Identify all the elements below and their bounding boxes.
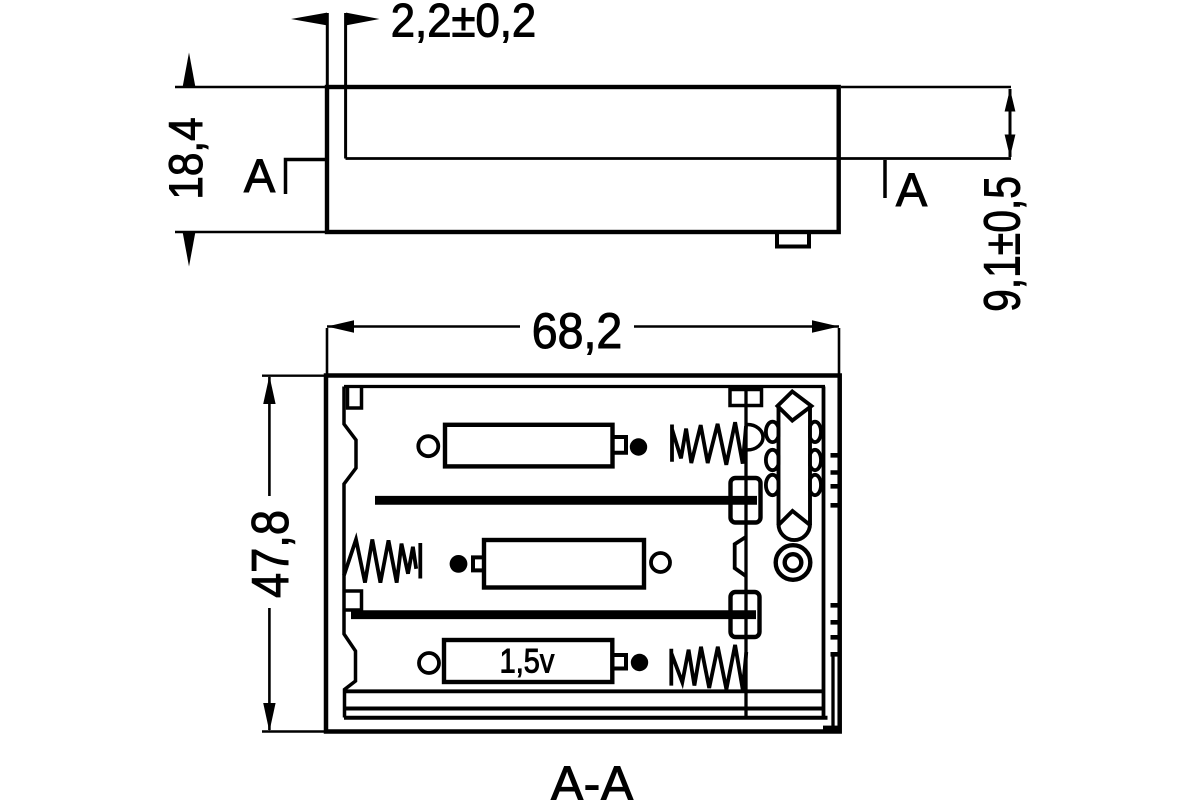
dimension 68,2 left arrow bbox=[327, 320, 354, 332]
floor line 2 bbox=[346, 707, 822, 711]
svg-text:1,5v: 1,5v bbox=[500, 641, 555, 680]
battery B1 outline bbox=[445, 425, 613, 467]
row 2 right contact blade bbox=[735, 537, 746, 576]
spring S2 (row 2) bbox=[344, 540, 420, 583]
svg-text:2,2±0,2: 2,2±0,2 bbox=[391, 0, 536, 47]
svg-text:47,8: 47,8 bbox=[242, 510, 300, 598]
dimension 9,1 line bbox=[1009, 89, 1012, 157]
inner right wall line bbox=[822, 387, 826, 718]
battery B3 positive nub bbox=[613, 655, 627, 669]
svg-text:18,4: 18,4 bbox=[161, 117, 213, 199]
top edge extension line (right) bbox=[841, 86, 1011, 89]
svg-text:A: A bbox=[244, 149, 276, 202]
svg-text:68,2: 68,2 bbox=[532, 303, 622, 359]
battery B3 positive dot bbox=[631, 654, 648, 671]
svg-text:A-A: A-A bbox=[550, 756, 634, 800]
dimension 68,2 line right segment bbox=[634, 325, 839, 328]
contact strip bottom chevron bbox=[779, 511, 811, 525]
dimension 9,1 top arrow bbox=[1005, 89, 1016, 112]
spring S1 end loop bbox=[748, 425, 763, 450]
contact strip coil loops (left) bbox=[766, 422, 779, 442]
battery B2 outline bbox=[484, 540, 644, 588]
dimension 9,1 bottom arrow bbox=[1005, 135, 1016, 158]
right channel inner line bbox=[831, 655, 834, 727]
spring S3 (row 3) bbox=[671, 645, 746, 690]
contact strip coil loops (right) bbox=[809, 422, 821, 442]
contact strip top diamond bbox=[778, 392, 812, 421]
divider bar 2 bbox=[351, 610, 756, 619]
dimension 2,2 left arrow bbox=[291, 13, 327, 26]
battery B2 negative circle bbox=[651, 553, 670, 572]
battery B1 negative circle bbox=[418, 436, 438, 456]
dimension 68,2 line left segment bbox=[327, 325, 520, 328]
dimension 18,4 top extension line bbox=[175, 86, 325, 88]
contact strip body mask bbox=[780, 400, 808, 524]
contact channel vertical line bbox=[744, 387, 747, 718]
top contact clip bbox=[730, 390, 762, 406]
battery B1 positive nub bbox=[613, 437, 627, 453]
rivet double ring bbox=[776, 545, 811, 580]
upper-left retaining tab bbox=[348, 387, 362, 408]
section mark A right bbox=[883, 160, 887, 198]
spring S1 (row 1) bbox=[672, 422, 746, 465]
dimension 47,8 line bottom segment bbox=[268, 608, 271, 730]
dimension 47,8 bottom arrow bbox=[263, 703, 275, 732]
dimension 18,4 top arrow bbox=[183, 53, 196, 88]
clip on bar 1 bbox=[731, 478, 761, 523]
dimension 18,4 bottom arrow bbox=[183, 232, 196, 267]
inner top wall line bbox=[344, 385, 825, 388]
inner left wall with ribs bbox=[344, 387, 356, 718]
dimension 18,4 bottom extension line bbox=[175, 231, 325, 233]
dimension 47,8 top arrow bbox=[263, 376, 275, 404]
svg-text:A: A bbox=[896, 163, 928, 216]
battery B1 positive dot bbox=[630, 438, 647, 455]
dimension 47,8 top extension line bbox=[262, 375, 324, 377]
contact strip right edge bbox=[808, 406, 812, 525]
dimension 2,2 right extension line bbox=[344, 13, 347, 159]
middle-left retaining tab bbox=[344, 591, 362, 610]
contact strip left edge bbox=[777, 406, 781, 525]
section mark A left bbox=[286, 160, 328, 195]
dimension 2,2 right arrow bbox=[346, 13, 380, 26]
bottom tab of body bbox=[777, 232, 809, 247]
right channel floor bbox=[823, 726, 838, 730]
right wall ticks group 1 bbox=[831, 455, 840, 505]
battery B2 positive dot bbox=[450, 555, 468, 573]
dimension 68,2 right arrow bbox=[812, 320, 839, 332]
clip on bar 2 bbox=[731, 592, 760, 637]
divider bar 1 bbox=[375, 496, 757, 505]
dimension 68,2 left extension line bbox=[326, 328, 329, 375]
outer case outline (section) bbox=[326, 376, 840, 732]
right wall ticks group 2 bbox=[831, 605, 840, 654]
dimension 2,2 left extension line bbox=[326, 13, 329, 87]
lid seam line bbox=[346, 157, 1012, 160]
dimension 47,8 bottom extension line bbox=[262, 730, 324, 732]
contact strip bottom round end bbox=[779, 524, 811, 540]
body outline (side view) bbox=[327, 87, 839, 232]
floor line 1 bbox=[344, 689, 824, 693]
battery B3 outline bbox=[444, 640, 612, 682]
dimension 47,8 line top segment bbox=[268, 377, 271, 496]
svg-text:9,1±0,5: 9,1±0,5 bbox=[973, 176, 1030, 312]
battery B3 negative circle bbox=[419, 653, 439, 673]
battery B2 positive nub bbox=[473, 557, 484, 570]
dimension 68,2 right extension line bbox=[838, 328, 841, 374]
floor line 3 bbox=[344, 716, 828, 720]
